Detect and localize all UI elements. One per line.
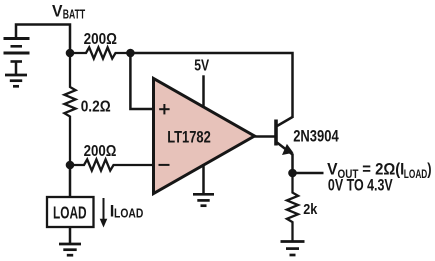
transistor Q1 collector lead (277, 117, 293, 126)
battery B1 (4, 39, 30, 76)
svg-text:V: V (52, 3, 63, 21)
resistor R1 200 ohm (70, 47, 130, 58)
label VOUT line 1 (327, 160, 431, 181)
wire node B to transistor collector (130, 53, 292, 118)
svg-text:BATT: BATT (63, 7, 86, 21)
svg-text:LOAD: LOAD (114, 206, 143, 221)
label ILOAD (110, 203, 144, 221)
svg-text:LT1782: LT1782 (167, 128, 211, 147)
ground under R3 (281, 242, 305, 256)
wire load to ground (69, 227, 72, 244)
wire node C to load (69, 165, 72, 197)
svg-text:0.2Ω: 0.2Ω (81, 99, 111, 116)
svg-text:LOAD: LOAD (404, 167, 428, 181)
transistor Q1 base bar (274, 120, 278, 146)
wire battery to node A (16, 25, 70, 54)
svg-text:5V: 5V (194, 58, 209, 75)
svg-text:LOAD: LOAD (53, 203, 87, 223)
transistor Q1 emitter lead (277, 143, 293, 155)
node C junction (66, 161, 75, 170)
svg-text:): ) (427, 160, 431, 179)
label VBATT (52, 3, 85, 22)
svg-text:2k: 2k (303, 201, 318, 218)
sense resistor 0.2 ohm (64, 53, 75, 165)
op-amp ground stem (202, 164, 205, 194)
wire node D to VOUT (293, 172, 324, 175)
node A junction (66, 49, 75, 58)
resistor R2 200 ohm (70, 159, 153, 170)
wire node B to op-amp plus input (130, 53, 153, 109)
transistor Q1 emitter arrowhead (282, 144, 293, 155)
op-amp plus pin symbol (159, 104, 169, 114)
svg-text:200Ω: 200Ω (84, 143, 117, 160)
wire emitter to node D (291, 154, 294, 174)
op-amp U1 triangle (154, 79, 255, 194)
node D junction (288, 169, 297, 178)
5V supply stem (202, 75, 205, 108)
svg-text:2N3904: 2N3904 (293, 126, 339, 145)
ILOAD arrow (100, 198, 108, 228)
resistor R3 2k (287, 173, 298, 242)
node B junction (126, 49, 135, 58)
ground under battery (5, 75, 27, 86)
svg-text:0V TO 4.3V: 0V TO 4.3V (328, 177, 393, 195)
op-amp output wire (255, 135, 275, 138)
ground under load (59, 244, 81, 255)
svg-text:200Ω: 200Ω (84, 31, 118, 48)
op-amp minus pin symbol (159, 164, 170, 166)
op-amp ground symbol (193, 194, 214, 205)
load box (47, 197, 94, 227)
